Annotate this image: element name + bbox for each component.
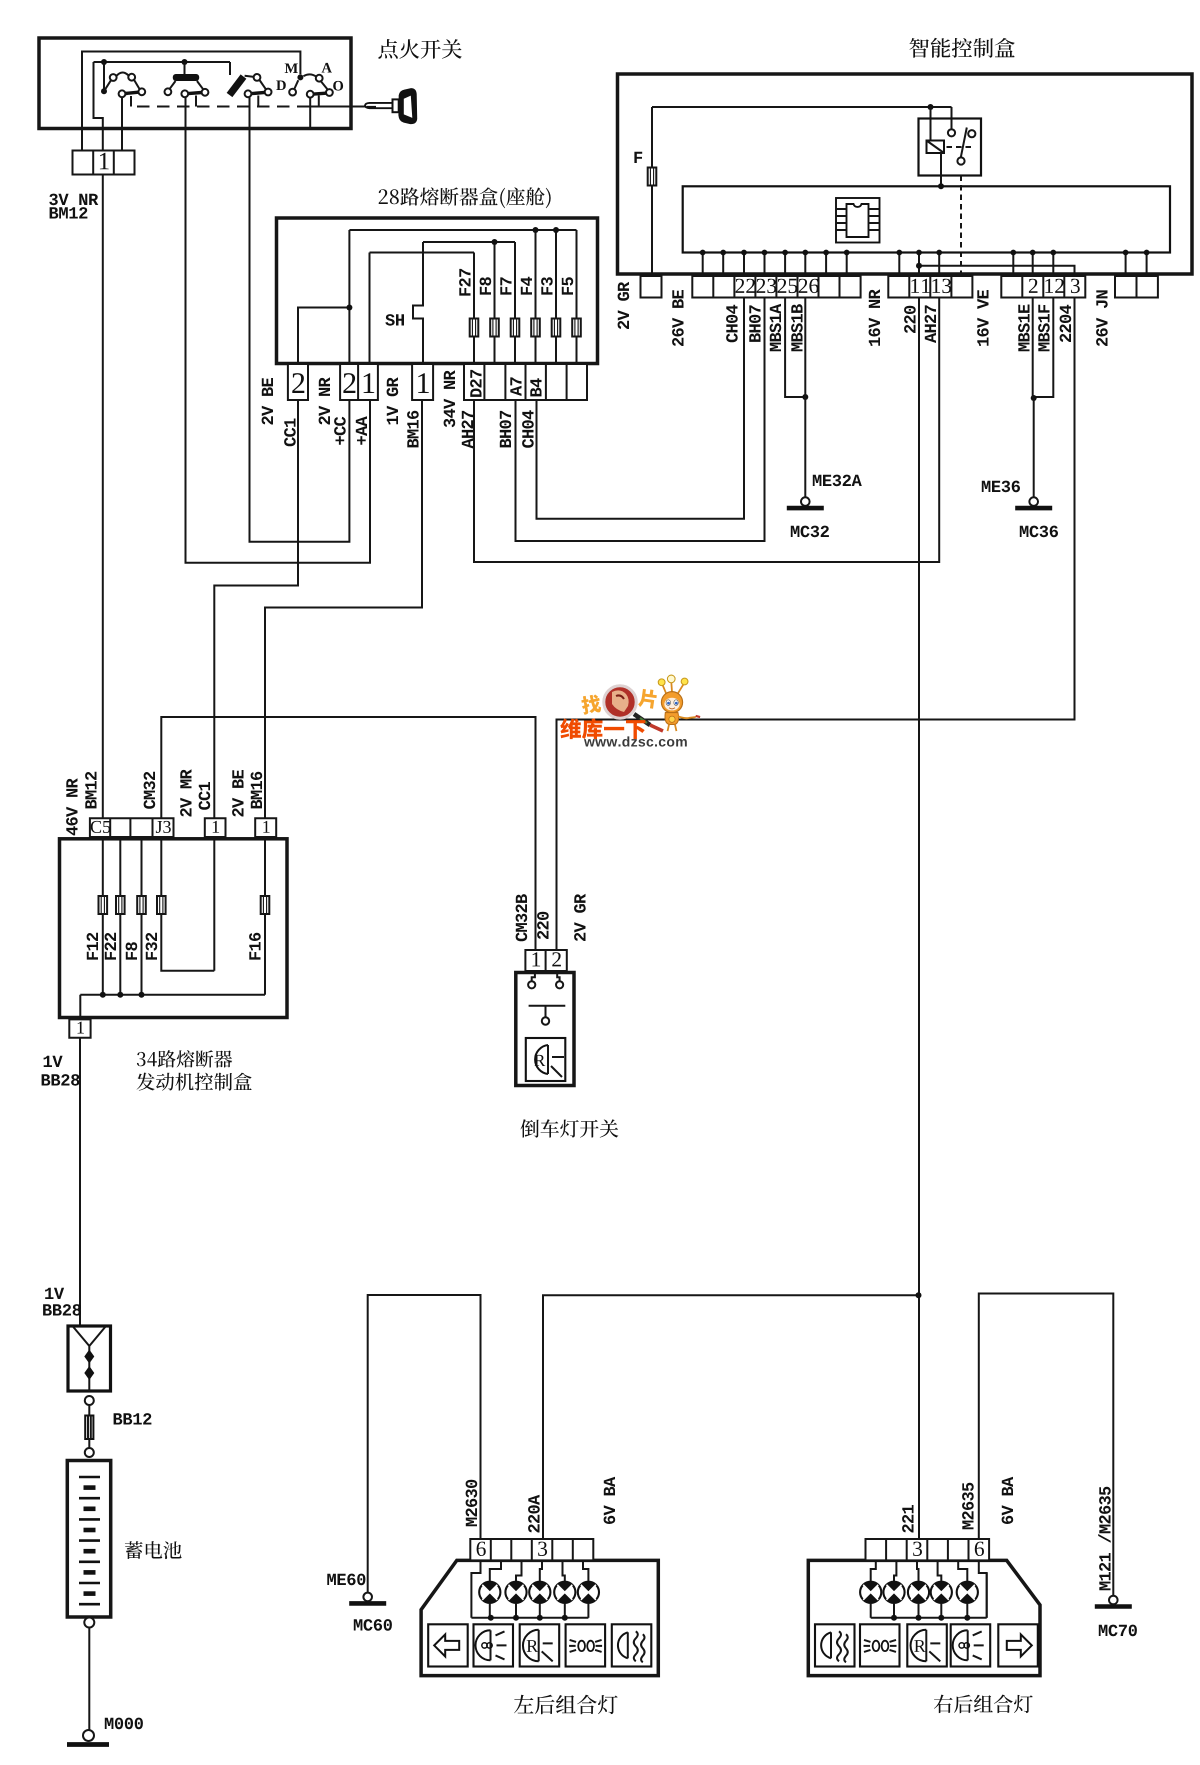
wire relay coil to logic box: [940, 153, 942, 186]
icon fog: [815, 1624, 855, 1666]
logic inner box: [683, 186, 1170, 252]
label 1V BB28: [44, 1056, 63, 1067]
title 蓄电池: [125, 1541, 182, 1559]
label 2V GR: [574, 894, 586, 941]
icon arrowL: [428, 1624, 468, 1666]
title 左后组合灯: [514, 1695, 618, 1715]
left rear lamp box: [421, 1560, 658, 1675]
label 26V BE: [672, 290, 684, 346]
label CM32B 220: [516, 894, 528, 941]
icon fog: [612, 1624, 652, 1666]
label CH04: [726, 305, 738, 343]
ground MC60 (ME60): [363, 1593, 372, 1602]
watermark dzsc logo: [560, 675, 700, 747]
wire M2635 (right lamp ground to MC70): [979, 1294, 1114, 1596]
wire ignition S3 to +CC: [250, 97, 350, 542]
ignition switch box 点火开关: [39, 38, 351, 129]
wire MBS1E to ground: [1032, 298, 1034, 399]
label M2635: [962, 1483, 974, 1530]
label MBS1E: [1018, 305, 1030, 352]
label 16V VE: [977, 290, 989, 346]
label 220A: [528, 1495, 540, 1533]
label 221: [902, 1505, 913, 1533]
watermark 维库一下: [560, 718, 645, 739]
label 1V BB28 (lower): [45, 1288, 64, 1299]
bulb right 4: [931, 1582, 952, 1603]
bulb left 4: [554, 1582, 575, 1603]
icon arrowR: [998, 1624, 1038, 1666]
label 2V GR: [618, 282, 630, 329]
fuse F7: [511, 319, 520, 337]
wire battery negative to M000: [88, 1628, 90, 1731]
label 6V BA (left): [604, 1477, 616, 1524]
wire bus line2: [423, 242, 515, 400]
icon tail: [951, 1624, 991, 1666]
switch S1 (ignition sw contact set): [101, 59, 145, 151]
switch pins: [532, 973, 560, 982]
wire: internal bus line B: [94, 62, 231, 151]
title 右后组合灯: [934, 1695, 1033, 1714]
label AH27: [925, 305, 936, 343]
fuse F8: [137, 896, 146, 914]
ground MC70: [1109, 1596, 1118, 1605]
left lamp connector: [470, 1539, 593, 1560]
fuse F12: [99, 896, 108, 914]
wire left lamp pin to bulb 1: [490, 1560, 501, 1581]
fuse F (control box) with feed wire: [651, 107, 653, 274]
label 34V NR AH27: [444, 370, 456, 427]
fuse F32: [157, 896, 166, 914]
wire BH07 (A7 to control box 23): [516, 298, 765, 542]
dashed link relay to pin row: [960, 176, 962, 273]
wire BB28 (to battery): [79, 1038, 81, 1326]
label 16V NR: [869, 289, 881, 346]
control box connector group right: [1115, 276, 1158, 298]
label 2V NR +CC +AA: [319, 377, 330, 424]
fuse BB12: [88, 1405, 90, 1416]
reversing lamp icon: [526, 1038, 566, 1081]
wire ignition S2 to +AA: [186, 97, 371, 563]
wire BM12 (ignition pin1 to C5): [102, 175, 104, 819]
label 220: [904, 306, 916, 333]
wire BM16 (fuse box to engine box): [265, 400, 422, 818]
label BH07: [749, 305, 761, 342]
label MBS1A: [770, 304, 782, 351]
right lamp ground bus: [871, 1617, 987, 1619]
ground MC32 (ME32A): [801, 497, 810, 506]
bulb left 2: [505, 1582, 526, 1603]
control box 智能控制盒: [618, 74, 1193, 274]
title 34路熔断器: [137, 1050, 232, 1068]
wire bus line1 (ignition feed): [349, 230, 576, 400]
label BH07: [500, 411, 512, 448]
IC chip U1: [836, 198, 880, 243]
wire CC1 (fuse box to engine box): [214, 400, 298, 818]
pin label D27: [470, 370, 481, 397]
bulb right 1: [860, 1582, 881, 1603]
control box connector group 11 13: [888, 276, 972, 298]
ignition key: [365, 88, 417, 124]
wire left lamp pin to bulb 3: [540, 1560, 542, 1581]
icon rev: [520, 1624, 560, 1666]
wire 220A branch to left lamp: [543, 1295, 919, 1539]
label 6V BA (right): [1002, 1477, 1014, 1524]
icon tail: [474, 1624, 514, 1666]
engine box connector 1 (CC1): [205, 818, 226, 837]
mechanical link dashed line: [137, 106, 304, 108]
pin label B4: [530, 378, 541, 396]
battery terminal junction box: [68, 1326, 111, 1391]
wire cell3 to F8: [141, 837, 143, 896]
wire CH04 (B4 to control box 22): [537, 298, 745, 519]
control box connector group 2 12 3: [1001, 276, 1085, 298]
title 倒车灯开关: [521, 1119, 619, 1137]
wire pin11 to pin3 bridge (220/2204 net): [919, 266, 1075, 276]
wire right lamp pin to bulb 3: [917, 1560, 919, 1581]
wire right lamp pin to bulb 5: [958, 1560, 967, 1581]
wire M2630 (left lamp ground to MC60): [368, 1295, 481, 1593]
wire 220 (pin11 down to rear lamps): [918, 298, 920, 1540]
label M2630: [466, 1480, 478, 1526]
label CH04: [522, 410, 534, 448]
switch S4 (M A D O): [276, 63, 343, 128]
title 智能控制盒: [910, 38, 1015, 58]
bulb right 2: [883, 1582, 904, 1603]
label 46V NR BM12: [66, 778, 78, 835]
control box connector cell 2V GR: [641, 276, 662, 298]
left lamp ground bus: [471, 1617, 588, 1619]
wire left lamp pin to bulb 5: [583, 1560, 588, 1581]
bulb left 3: [529, 1582, 550, 1603]
fuse box bottom connectors: [288, 364, 308, 400]
wire right lamp pin to bulb 4: [938, 1560, 942, 1581]
shunt SH: [413, 242, 423, 400]
internal ground bus: [80, 914, 265, 1019]
wire F32 to CC1 pin: [161, 837, 214, 971]
fuse box 28路熔断器盒(座舱): [277, 218, 598, 364]
wire 2204 (pin3 to reversing switch pin2): [557, 298, 1075, 951]
wire bus line3: [370, 253, 475, 401]
fuse F27: [470, 319, 479, 337]
ignition connector (3 cells, pin 1): [73, 151, 135, 175]
wire right lamp pin to bulb 1: [871, 1560, 876, 1581]
wire CM32 (J3 to reversing switch pin1): [161, 717, 535, 950]
wire BM16 cell to F16: [264, 837, 266, 896]
control box connector group 22 23 25 26: [692, 276, 860, 298]
wire MBS1A joins MBS1B: [785, 298, 805, 398]
bulb left 5: [578, 1582, 599, 1603]
label M121 /M2635: [1098, 1487, 1111, 1591]
label 3V NR / BM12: [49, 194, 98, 206]
reversing switch connector 1 2: [525, 950, 566, 971]
engine box bottom connector 1: [69, 1019, 90, 1037]
icon lic: [566, 1624, 606, 1666]
fuse F16: [261, 896, 270, 914]
right lamp ground pin feed: [979, 1560, 987, 1617]
watermark www.dzsc.com: [584, 736, 687, 746]
fuse F8: [490, 319, 499, 337]
label MBS1F: [1038, 305, 1050, 351]
wire left lamp pin to bulb 2: [516, 1560, 522, 1581]
wire MBS1B to ground: [804, 298, 806, 498]
label 1V GR BM16: [387, 377, 399, 424]
icon rev: [907, 1624, 947, 1666]
engine control box 34路熔断器 发动机控制盒: [60, 839, 288, 1018]
label 2V BE CC1: [262, 378, 273, 425]
switch S3: [230, 62, 272, 107]
label 26V JN: [1096, 290, 1108, 346]
label 2V MR CC1: [180, 769, 191, 816]
fuse F22: [116, 896, 125, 914]
pin stubs control box: [703, 253, 1147, 277]
fuse F4: [531, 319, 540, 337]
relay (control box): [919, 119, 982, 176]
switch contact: [529, 1006, 566, 1017]
left lamp ground pin feed: [471, 1560, 480, 1617]
wire MBS1F joins MBS1E: [1034, 298, 1054, 398]
bulb left 1: [479, 1582, 500, 1603]
right lamp connector: [866, 1539, 990, 1560]
ground M000: [83, 1730, 94, 1741]
wire CC1 branch: [298, 308, 349, 401]
wire: internal bus line A: [82, 52, 300, 151]
wire fuse to relay: [652, 107, 952, 129]
label MBS1B: [791, 304, 803, 351]
engine box connector 1 (BM16): [255, 818, 276, 837]
wire right lamp pin to bulb 2: [894, 1560, 896, 1581]
label 2204: [1060, 305, 1072, 342]
pin label A7: [510, 377, 521, 396]
title 发动机控制盒: [137, 1073, 252, 1091]
ground MC36 (ME36): [1029, 497, 1038, 506]
label 2V BE BM16: [232, 770, 243, 817]
engine box top connector C5 J3: [90, 818, 174, 837]
title 28路熔断器盒(座舱): [379, 187, 551, 208]
wire AH27 (D27 to control box 13): [474, 298, 939, 563]
fuse F3: [552, 319, 561, 337]
battery 蓄电池: [67, 1461, 110, 1618]
switch S2: [165, 59, 209, 107]
reversing switch box 倒车灯开关: [516, 973, 574, 1086]
wire J3 to F32: [160, 837, 162, 896]
fuse F5: [572, 319, 581, 337]
wire left lamp pin to bulb 4: [563, 1560, 565, 1581]
wire cell2 to F22: [119, 837, 121, 896]
bulb right 5: [957, 1582, 978, 1603]
wire C5 to F12: [102, 837, 104, 896]
title 点火开关: [378, 39, 461, 59]
bulb right 3: [908, 1582, 929, 1603]
right rear lamp box: [808, 1560, 1040, 1675]
icon lic: [860, 1624, 900, 1666]
label CM32: [144, 772, 156, 809]
